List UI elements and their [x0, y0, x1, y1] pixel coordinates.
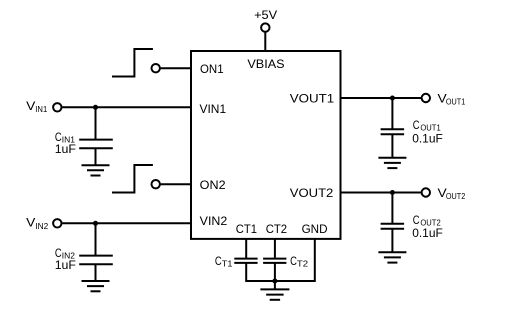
- svg-text:OUT2: OUT2: [446, 191, 466, 201]
- junction VIN2/CIN2: [93, 221, 98, 226]
- svg-text:VOUT1: VOUT1: [290, 92, 335, 106]
- junction VOUT1/COUT1: [390, 96, 395, 101]
- svg-text:0.1uF: 0.1uF: [412, 226, 443, 240]
- wire VOUT1 pin to terminal: [341, 97, 422, 99]
- svg-text:OUT1: OUT1: [446, 96, 466, 106]
- svg-text:1uF: 1uF: [55, 142, 77, 156]
- wire CIN1 to ground: [95, 148, 97, 165]
- svg-text:C: C: [215, 254, 222, 268]
- svg-text:+5V: +5V: [254, 8, 278, 22]
- step waveform ON2: [112, 165, 153, 193]
- terminal VIN1: [53, 103, 61, 111]
- capacitor CIN2: [79, 255, 113, 257]
- wire CIN2 branch: [95, 223, 97, 255]
- svg-text:1uF: 1uF: [55, 258, 77, 272]
- svg-text:C: C: [413, 213, 420, 227]
- wire CT1 to rail: [245, 263, 247, 282]
- IC U1: [191, 51, 341, 239]
- wire VIN1 terminal to pin: [62, 106, 191, 108]
- svg-text:CT1: CT1: [236, 222, 257, 236]
- capacitor CT1: [234, 258, 257, 260]
- wire COUT2 to ground: [391, 229, 393, 253]
- terminal VOUT2: [422, 188, 430, 196]
- wire CIN1 branch: [95, 107, 97, 139]
- wire CT2 to rail: [274, 263, 276, 282]
- svg-text:VIN1: VIN1: [200, 102, 227, 116]
- wire CIN2 to ground: [95, 264, 97, 281]
- ground (system): [260, 289, 289, 299]
- svg-text:ON1: ON1: [200, 62, 224, 76]
- wire VOUT2 pin to terminal: [341, 192, 422, 194]
- wire COUT1 branch: [391, 98, 393, 129]
- wire COUT2 branch: [391, 193, 393, 224]
- svg-text:VOUT2: VOUT2: [290, 186, 334, 200]
- terminal VOUT1: [422, 94, 430, 102]
- junction ground rail: [272, 279, 277, 284]
- terminal ON2: [152, 180, 160, 188]
- wire ground rail: [246, 280, 315, 282]
- wire COUT1 to ground: [391, 134, 393, 158]
- wire +5V to VBIAS pin: [264, 32, 266, 51]
- svg-text:GND: GND: [302, 222, 328, 236]
- ground COUT2: [378, 252, 406, 262]
- wire ON1 terminal to pin: [161, 67, 192, 69]
- svg-text:VBIAS: VBIAS: [247, 57, 284, 71]
- svg-text:CT2: CT2: [266, 222, 287, 236]
- svg-text:T1: T1: [222, 259, 233, 269]
- terminal +5V: [261, 23, 269, 31]
- svg-text:C: C: [413, 118, 420, 132]
- wire CT1 pin down: [245, 239, 247, 259]
- wire rail to ground symbol: [274, 281, 276, 289]
- step waveform ON1: [112, 49, 153, 77]
- ground CIN1: [82, 165, 110, 175]
- terminal VIN2: [53, 219, 61, 227]
- capacitor COUT1: [381, 128, 405, 130]
- wire VIN2 terminal to pin: [62, 222, 191, 224]
- junction VIN1/CIN1: [93, 105, 98, 110]
- ground CIN2: [82, 281, 110, 291]
- svg-text:ON2: ON2: [200, 178, 226, 192]
- capacitor CT2: [263, 258, 286, 260]
- wire GND pin down: [314, 239, 316, 282]
- wire CT2 pin down: [274, 239, 276, 259]
- junction VOUT2/COUT2: [390, 190, 395, 195]
- svg-text:T2: T2: [297, 259, 309, 269]
- svg-text:IN2: IN2: [35, 221, 48, 231]
- wire ON2 terminal to pin: [161, 183, 192, 185]
- capacitor CIN1: [79, 139, 113, 141]
- ground COUT1: [378, 158, 406, 168]
- capacitor COUT2: [381, 223, 405, 225]
- svg-text:0.1uF: 0.1uF: [412, 131, 443, 145]
- svg-text:IN1: IN1: [35, 104, 47, 114]
- terminal ON1: [152, 64, 160, 72]
- svg-text:VIN2: VIN2: [200, 214, 228, 228]
